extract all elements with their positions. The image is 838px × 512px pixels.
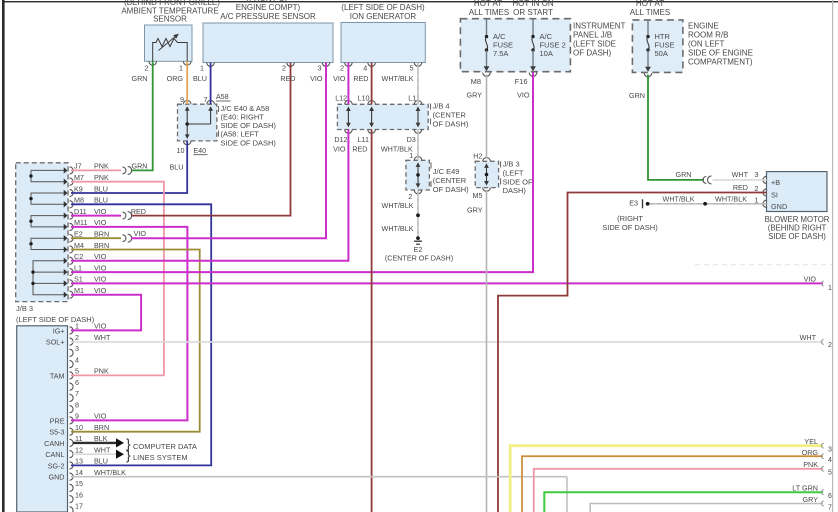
svg-text:DASH): DASH) [503,186,527,195]
pin C2 (VIO) [70,252,107,264]
svg-text:RED: RED [352,144,367,153]
wire PNK stub J7 [71,169,121,171]
svg-text:SIDE OF DASH): SIDE OF DASH) [221,138,277,147]
ground E2 (center of dash) [385,236,453,263]
svg-text:FUSE 2: FUSE 2 [540,41,566,50]
svg-text:3: 3 [828,446,832,453]
fuse HTR FUSE 50A [644,20,674,77]
svg-text:5: 5 [828,470,832,477]
svg-text:L11: L11 [358,135,369,144]
arrow CANL WHT computer data line [73,447,131,463]
wire RED D11 to A/C pressure sensor pin 2 [131,63,296,216]
svg-text:PNK: PNK [94,173,109,182]
svg-text:8: 8 [75,400,79,409]
A/C control unit connector block (left side of dash) [17,326,68,512]
svg-text:6: 6 [828,493,832,500]
pin M1 (VIO) [70,286,107,298]
svg-text:J/B 4: J/B 4 [433,102,450,111]
svg-text:SG-2: SG-2 [48,461,65,470]
pin D3 [381,135,416,154]
blower motor (behind right side of dash) [755,170,830,241]
pin L10 [358,94,370,103]
svg-text:VIO: VIO [333,74,346,83]
svg-text:BLU: BLU [193,74,207,83]
svg-text:F16: F16 [515,77,528,86]
svg-text:E3: E3 [629,199,638,208]
svg-text:J/C E49: J/C E49 [433,167,460,176]
svg-text:RED: RED [280,74,295,83]
svg-text:VIO: VIO [94,412,107,421]
wire GRY M8 fuse to J/B3 H2 [467,75,487,160]
svg-text:ION GENERATOR: ION GENERATOR [350,12,417,21]
wire WHT/BLK GND pin 14 to bottom edge [71,477,567,512]
svg-text:+B: +B [771,178,780,187]
svg-text:RED: RED [733,183,748,192]
svg-text:2: 2 [145,64,149,73]
svg-text:3: 3 [75,344,79,353]
internal link E2-M4 with junction [29,235,67,253]
svg-text:ALL TIMES: ALL TIMES [630,8,670,17]
wire WHT/BLK blower GND pin 1 to ground E3 with splice [650,194,767,205]
svg-text:GRY: GRY [467,206,483,215]
svg-text:VIO: VIO [94,275,107,284]
svg-text:VIO: VIO [94,207,107,216]
svg-text:J7: J7 [74,162,82,171]
svg-text:2: 2 [340,64,344,73]
svg-text:SIDE OF DASH): SIDE OF DASH) [602,223,658,232]
svg-text:H2: H2 [473,151,482,160]
wire WHT connector to blower +B pin 3 [713,170,767,180]
svg-text:M7: M7 [74,173,84,182]
svg-text:2: 2 [408,192,412,201]
svg-text:J/B 3: J/B 3 [16,304,33,313]
pin 5 TAM (PNK) [50,367,109,381]
svg-text:15: 15 [75,479,83,488]
svg-text:M8: M8 [471,77,481,86]
wire YEL to pin 3 right edge [510,437,832,512]
svg-text:1: 1 [828,285,832,292]
wire VIO S1 to pin 1 right edge [71,275,832,292]
svg-text:A58: A58 [216,92,229,101]
svg-text:4: 4 [363,64,367,73]
svg-text:7.5A: 7.5A [493,49,508,58]
ambient temperature sensor (thermistor, behind front grille) [121,0,220,73]
svg-text:GND: GND [49,473,65,482]
svg-text:1: 1 [200,64,204,73]
svg-text:BLU: BLU [94,184,108,193]
pin L12 [335,94,347,103]
svg-text:A/C: A/C [540,32,553,41]
svg-text:PNK: PNK [803,460,818,469]
faint dashed divider [695,264,832,266]
J/B 4 junction block (center of dash) [337,101,468,134]
svg-text:RED: RED [131,207,146,216]
svg-text:PNK: PNK [94,367,109,376]
internal link K9-M8 with junction [29,190,67,208]
svg-text:10A: 10A [540,49,553,58]
wire PNK to pin 5 right edge [534,460,832,512]
svg-text:3: 3 [318,64,322,73]
svg-text:WHT/BLK: WHT/BLK [382,224,414,233]
pin 12 CANL (WHT) [45,445,111,459]
svg-text:WHT: WHT [94,333,111,342]
wire LT GRN to pin 6 right edge [544,483,832,512]
svg-text:PANEL J/B: PANEL J/B [573,31,612,40]
svg-text:9: 9 [180,95,184,104]
svg-text:L1: L1 [74,263,82,272]
svg-text:5: 5 [75,367,79,376]
svg-text:BLU: BLU [94,457,108,466]
svg-text:WHT/BLK: WHT/BLK [94,468,126,477]
fuse A/C FUSE 2 10A [530,19,566,72]
svg-text:VIO: VIO [94,252,107,261]
svg-text:GRN: GRN [629,91,645,100]
svg-text:(LEFT SIDE OF DASH): (LEFT SIDE OF DASH) [341,3,425,12]
svg-text:BRN: BRN [94,241,109,250]
wire ORG ambient sensor pin 1 to J/C E40 pin 9 [167,61,188,104]
svg-text:YEL: YEL [804,437,818,446]
svg-text:14: 14 [75,468,83,477]
svg-text:FUSE: FUSE [493,41,513,50]
wire VIO F16 fuse down to L1 junction [532,75,534,273]
wire BLU M8 to SG-2 pin 13 [71,204,211,465]
svg-text:5: 5 [410,64,414,73]
svg-text:M1: M1 [74,286,84,295]
svg-text:LT GRN: LT GRN [792,483,818,492]
svg-text:ENGINE: ENGINE [688,22,719,31]
arrow CANH BLK computer data line [73,435,131,451]
svg-text:3: 3 [755,170,759,179]
wire GRN HTR fuse to connector [629,75,704,180]
wire BRN stub E2 and connector [71,234,132,242]
svg-text:1: 1 [179,64,183,73]
svg-text:S1: S1 [74,275,83,284]
svg-text:WHT/BLK: WHT/BLK [382,201,414,210]
wire BRN M4 to S5-3 pin 10 [71,250,200,432]
wire VIO ion generator pin 2 to J/B4 L12 [333,63,348,105]
fuse A/C FUSE 7.5A [484,19,513,72]
svg-text:(RIGHT: (RIGHT [617,214,643,223]
instrument panel J/B fuse box (left side of dash) [460,0,625,72]
J/B 3 connector block (left side of dash) [16,163,95,324]
svg-text:TAM: TAM [50,371,65,380]
svg-text:1: 1 [755,195,759,204]
svg-text:SIDE OF ENGINE: SIDE OF ENGINE [688,49,753,58]
pin 6 [70,378,80,391]
svg-text:ALL TIMES: ALL TIMES [469,8,509,17]
J/C E49 junction block (center of dash) [406,151,469,201]
svg-text:ORG: ORG [802,448,819,457]
svg-text:(CENTER: (CENTER [433,111,467,120]
wire PNK M7 to TAM pin 5 [71,182,164,376]
pin 7 [70,389,80,402]
svg-text:2: 2 [828,342,832,349]
svg-text:(LEFT SIDE: (LEFT SIDE [573,40,616,49]
svg-text:L1: L1 [408,94,416,103]
pin 1 IG+ (VIO) [53,322,107,336]
pin D12 [333,135,347,154]
svg-text:1: 1 [409,151,413,160]
svg-text:M4: M4 [74,241,84,250]
svg-text:GRN: GRN [676,170,692,179]
svg-text:CANH: CANH [44,439,64,448]
J/C E40 & A58 junction block [177,92,277,155]
ion generator (left side of dash) [340,3,425,73]
svg-text:VIO: VIO [94,218,107,227]
svg-text:PNK: PNK [94,162,109,171]
pin M7 (PNK) [70,173,109,185]
wire WHT/BLK J/B4 D3 to J/C E49 pin 1 [417,130,419,161]
pin M8 (BLU) [70,196,108,208]
pin M11 (VIO) [70,218,107,230]
svg-text:COMPARTMENT): COMPARTMENT) [688,58,753,67]
wire WHT/BLK J/C E49 pin 2 to ground E2 with splices [382,190,420,238]
svg-text:LINES SYSTEM: LINES SYSTEM [133,453,188,462]
wire RED blower SI pin 2 to bottom edge [498,183,767,512]
svg-text:WHT: WHT [800,333,817,342]
svg-text:A/C PRESSURE SENSOR: A/C PRESSURE SENSOR [220,12,316,21]
svg-text:(LEFT: (LEFT [503,169,524,178]
svg-text:2: 2 [282,64,286,73]
svg-text:S5-3: S5-3 [49,428,64,437]
internal link D11-M11 with junction [29,212,67,230]
svg-text:E40: E40 [193,146,206,155]
svg-text:(CENTER: (CENTER [433,176,467,185]
svg-text:FUSE: FUSE [655,41,675,50]
svg-text:VIO: VIO [804,275,817,284]
pin 13 SG-2 (BLU) [48,457,108,471]
svg-text:17: 17 [75,502,83,511]
svg-text:SIDE OF: SIDE OF [503,177,533,186]
svg-text:GRN: GRN [132,161,148,170]
svg-text:D12: D12 [334,135,347,144]
svg-text:VIO: VIO [333,144,346,153]
wire RED ion generator pin 4 to J/B4 L10 [353,63,371,105]
svg-text:7: 7 [204,95,208,104]
svg-text:16: 16 [75,490,83,499]
pin E2 (BRN) [70,230,110,242]
wire ORG to pin 4 right edge [522,448,832,512]
svg-text:GRY: GRY [803,495,819,504]
svg-text:9: 9 [75,412,79,421]
svg-text:RED: RED [353,74,368,83]
svg-text:1: 1 [75,322,79,331]
svg-text:D3: D3 [407,135,416,144]
svg-text:OF DASH): OF DASH) [573,49,612,58]
label computer data lines system [133,442,197,462]
pin 4 [70,355,80,368]
svg-text:13: 13 [75,457,83,466]
svg-text:INSTRUMENT: INSTRUMENT [573,22,626,31]
svg-text:BRN: BRN [94,230,109,239]
svg-text:VIO: VIO [94,286,107,295]
pin M4 (BRN) [70,241,110,253]
svg-text:M8: M8 [74,196,84,205]
svg-text:BLK: BLK [94,434,108,443]
svg-text:WHT/BLK: WHT/BLK [715,194,747,203]
svg-text:GND: GND [771,202,787,211]
pin 8 [70,400,80,413]
ground E3 (right side of dash) [602,199,658,232]
wire RED J/B4 L11 to bottom edge [371,130,373,512]
svg-text:E2: E2 [74,230,83,239]
svg-text:VIO: VIO [134,229,147,238]
svg-text:OF DASH): OF DASH) [433,185,469,194]
svg-text:BLU: BLU [94,196,108,205]
svg-text:C2: C2 [74,252,83,261]
svg-text:D11: D11 [74,207,87,216]
wire BLU J/C E40 pin 10 to K9 [71,141,187,193]
pin S1 (VIO) [70,275,107,287]
wire BLU A/C pressure sensor pin 1 to J/C pin 7 [193,63,211,105]
wire VIO C2 to J/B4 D12 [71,130,348,261]
svg-text:OR START: OR START [513,8,553,17]
svg-text:}: } [126,447,131,463]
svg-text:M11: M11 [74,218,87,227]
svg-text:WHT: WHT [94,445,111,454]
pin 15 [70,479,84,492]
wire GRY to pin 7 right edge [590,495,832,512]
svg-text:VIO: VIO [94,263,107,272]
svg-text:SOL+: SOL+ [46,338,65,347]
svg-text:(ON LEFT: (ON LEFT [688,40,725,49]
svg-text:4: 4 [828,457,832,464]
svg-text:PRE: PRE [50,416,65,425]
svg-text:OF DASH): OF DASH) [433,120,469,129]
pin 10 S5-3 (BRN) [49,423,109,437]
pin F16 of instrument panel J/B [515,73,537,87]
svg-text:(LEFT SIDE OF DASH): (LEFT SIDE OF DASH) [16,315,95,324]
svg-text:(CENTER OF DASH): (CENTER OF DASH) [385,254,453,263]
svg-text:SENSOR: SENSOR [153,15,187,24]
svg-text:VIO: VIO [517,91,530,100]
connector at J7 wire [123,166,132,174]
svg-text:50A: 50A [655,49,668,58]
J/B 3 junction block H2/M5 (left side of dash) [473,151,534,200]
svg-text:WHT/BLK: WHT/BLK [382,74,414,83]
svg-text:WHT: WHT [732,170,749,179]
svg-text:2: 2 [75,333,79,342]
pin 14 GND (WHT/BLK) [49,468,127,482]
svg-text:VIO: VIO [310,74,323,83]
pin 9 PRE (VIO) [50,412,107,426]
svg-text:10: 10 [177,146,185,155]
svg-text:M5: M5 [473,191,483,200]
svg-text:12: 12 [75,445,83,454]
svg-text:6: 6 [75,378,79,387]
wire WHT/BLK ion generator pin 5 to J/B4 L1 [382,63,418,105]
internal link C2-L1-S1-M1 with junctions [31,258,67,298]
svg-text:7: 7 [828,504,832,511]
A/C pressure sensor (front of engine compartment) [200,0,333,73]
svg-text:SIDE OF DASH): SIDE OF DASH) [768,232,826,241]
pin 3 [70,344,80,357]
svg-text:A/C: A/C [493,32,506,41]
svg-text:HOT AT: HOT AT [636,0,664,8]
svg-text:ORG: ORG [167,74,184,83]
wire VIO E2 to A/C pressure sensor pin 3 [131,63,326,239]
svg-text:ENGINE COMPT): ENGINE COMPT) [236,3,301,12]
svg-text:L10: L10 [358,94,370,103]
svg-text:COMPUTER DATA: COMPUTER DATA [133,442,197,451]
svg-text:BRN: BRN [94,423,109,432]
svg-text:CANL: CANL [45,450,64,459]
wire GRN ambient sensor pin 2 to J7 [131,61,153,170]
pin L11 [352,135,369,154]
svg-text:IG+: IG+ [53,326,65,335]
pin K9 (BLU) [70,184,108,196]
svg-text:BLU: BLU [170,163,184,172]
svg-text:GRN: GRN [132,74,148,83]
svg-text:WHT/BLK: WHT/BLK [381,144,413,153]
pin 11 CANH (BLK) [44,434,108,448]
svg-text:4: 4 [75,355,79,364]
wire GRY J/B3 M5 to bottom edge [467,190,486,512]
svg-text:K9: K9 [74,184,83,193]
pin 2 SOL+ (WHT) [46,333,111,347]
svg-text:HOT AT: HOT AT [474,0,502,8]
svg-text:ROOM R/B: ROOM R/B [688,31,728,40]
wire VIO M1 to IG+ pin 1 [71,295,141,331]
svg-text:J/B 3: J/B 3 [503,160,520,169]
svg-text:GRY: GRY [467,91,483,100]
wire VIO M11 to PRE pin 9 [71,227,187,421]
wire WHT SOL+ pin 2 to pin 2 right edge [71,333,832,349]
svg-text:11: 11 [75,434,82,443]
svg-text:10: 10 [75,423,83,432]
pin M8 of instrument panel J/B [471,73,491,87]
svg-text:L12: L12 [335,94,347,103]
svg-text:HTR: HTR [655,32,671,41]
pin 16 [70,490,84,503]
svg-text:7: 7 [75,389,79,398]
inline connector GRN-WHT [703,176,712,184]
svg-text:VIO: VIO [94,322,107,331]
pin 17 [70,502,84,512]
internal link J7-M7 with junction [29,167,67,185]
pin D11 (VIO) [70,207,107,219]
wire VIO stub D11 and connector [71,212,132,220]
svg-text:WHT/BLK: WHT/BLK [663,194,695,203]
engine room R/B fuse box [630,0,753,72]
svg-text:SI: SI [771,191,778,200]
svg-text:HOT IN ON: HOT IN ON [512,0,553,8]
wire VIO L1 to instrument panel J/B F16 [71,73,533,273]
pin J7 (PNK) [70,162,109,174]
pin L1 [408,94,416,103]
pin L1 (VIO) [70,263,107,275]
